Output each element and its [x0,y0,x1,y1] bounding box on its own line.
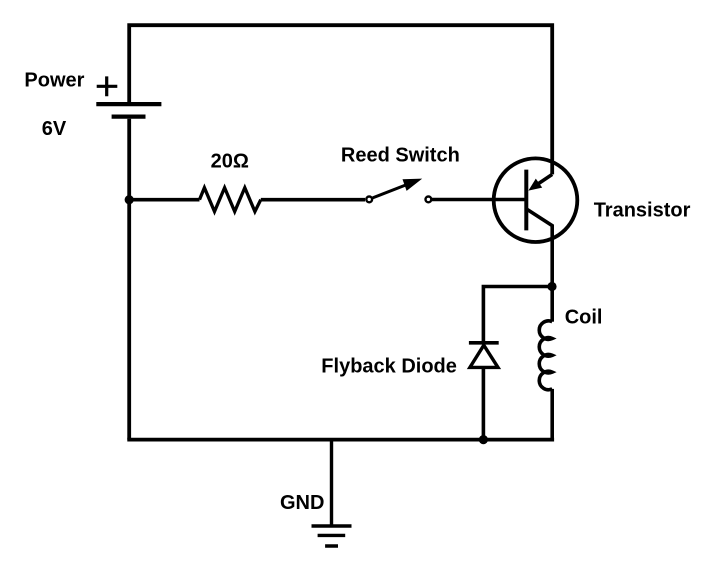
battery V1 plate short (-) [112,114,146,118]
svg-text:6V: 6V [42,118,67,140]
reed switch arrowhead [403,179,423,191]
reed switch left terminal [366,197,372,203]
wire resistor right lead [261,198,365,202]
battery plus sign [97,76,118,96]
wire resistor left lead [129,198,199,202]
wire coil bottom lead [550,389,554,440]
transistor Q1 circle [494,158,578,242]
reed switch lever [373,185,407,198]
transistor emitter diagonal [538,174,553,184]
svg-text:Transistor: Transistor [594,199,691,221]
diode D1 cathode bar [469,341,499,345]
battery V1 plate long (+) [96,102,161,106]
transistor collector diagonal [526,209,552,287]
wire junction to diode branch [483,287,552,342]
wire bottom rail [127,438,554,442]
wire diode to bottom rail [482,367,486,439]
resistor 20ohm zigzag [200,188,261,212]
wire top rail [129,25,552,174]
wire base lead [432,198,527,202]
transistor base bar [524,170,528,231]
svg-text:Flyback Diode: Flyback Diode [321,356,457,378]
svg-text:GND: GND [280,492,324,514]
reed switch right terminal [426,197,432,203]
svg-text:Coil: Coil [565,306,603,328]
wire ground stem [330,440,333,526]
wire left rail [127,119,131,440]
node collector-coil junction [547,282,556,291]
inductor L1 coil loops [539,321,552,390]
svg-text:Power: Power [24,70,84,92]
svg-text:20Ω: 20Ω [211,151,249,173]
diode D1 triangle [470,345,498,367]
node battery-resistor junction [125,195,134,204]
svg-text:Reed Switch: Reed Switch [341,145,460,167]
node diode-bottom junction [479,435,488,444]
ground symbol [312,526,352,546]
transistor emitter arrowhead [528,179,542,191]
wire coil top lead [550,287,554,322]
